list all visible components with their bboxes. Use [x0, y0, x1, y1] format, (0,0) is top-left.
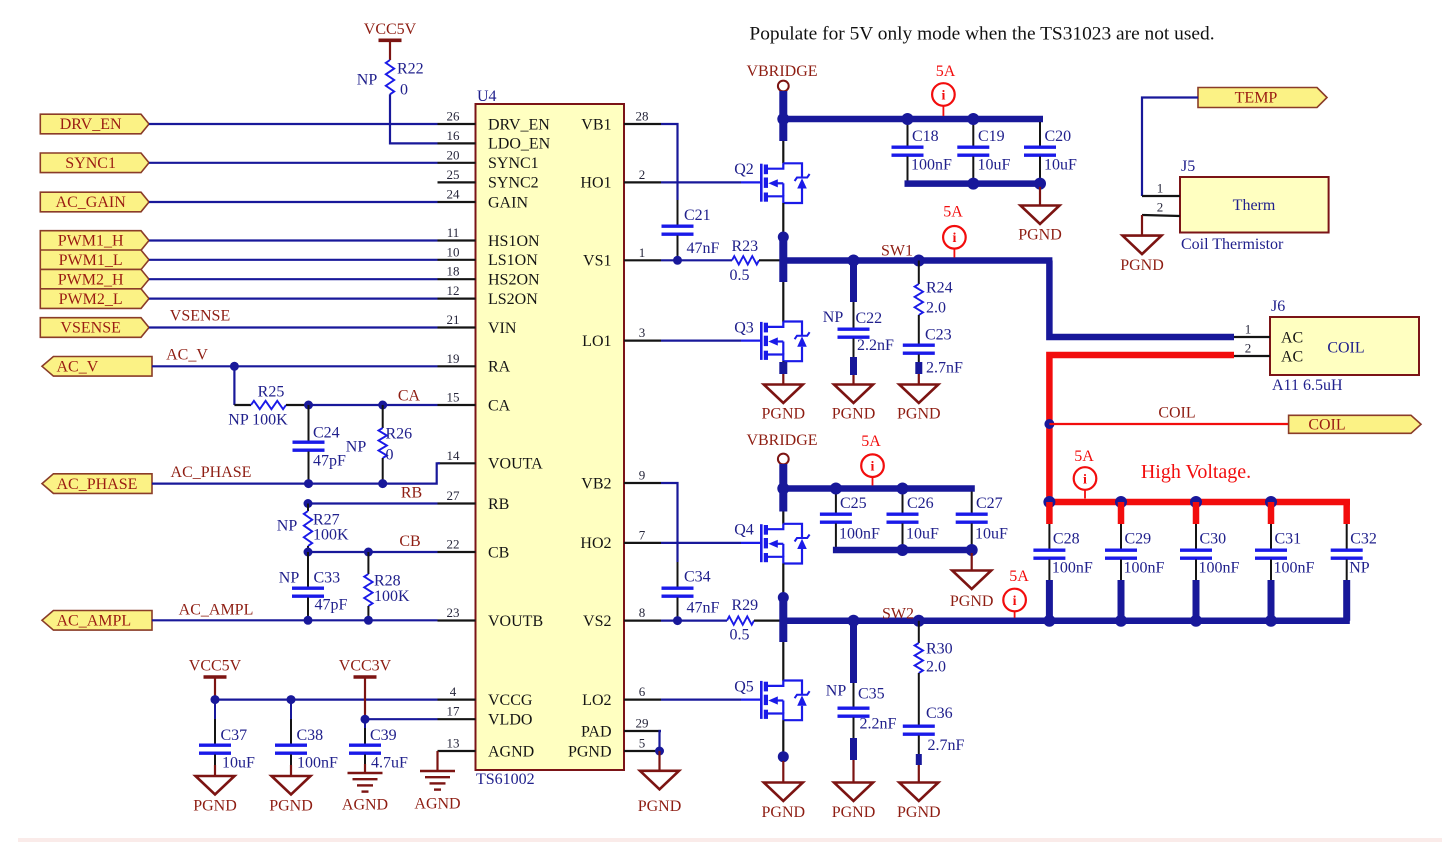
pin 19 RA (U4 left)	[438, 365, 476, 367]
pin 20 SYNC1 (U4 left)	[438, 162, 476, 164]
svg-text:TS61002: TS61002	[476, 771, 535, 788]
resistor R30	[918, 621, 920, 643]
transistor Q5	[741, 698, 761, 700]
resistor R27	[307, 504, 309, 512]
svg-text:2: 2	[1245, 341, 1252, 356]
power VCC5V (top)	[379, 38, 402, 42]
resistor R24	[918, 261, 920, 285]
wire pin 6 to Q5 gate	[661, 698, 741, 700]
svg-text:C23: C23	[925, 327, 952, 344]
pin 8 VS2 (U4 right)	[624, 619, 661, 621]
IC U4 TS61002 body	[476, 104, 625, 770]
svg-text:Therm: Therm	[1233, 197, 1276, 214]
svg-text:12: 12	[447, 283, 460, 298]
capacitor C35	[853, 683, 855, 708]
svg-text:VBRIDGE: VBRIDGE	[746, 63, 817, 80]
node AC_PHASE-R26 junction	[378, 479, 387, 488]
capacitor C39	[364, 719, 366, 728]
svg-text:HO2: HO2	[580, 535, 611, 552]
svg-text:SYNC2: SYNC2	[488, 175, 539, 192]
svg-text:Q5: Q5	[734, 678, 754, 695]
svg-text:NP: NP	[357, 72, 378, 89]
svg-text:NP: NP	[277, 518, 298, 535]
pin 17 VLDO (U4 left)	[438, 718, 476, 720]
pin 2 (J5)	[1142, 215, 1180, 216]
wire SW1 stub (thick)	[779, 237, 787, 282]
svg-text:PWM2_H: PWM2_H	[58, 271, 124, 288]
ground AGND under C39	[364, 764, 366, 773]
wire VCCG row	[215, 698, 438, 700]
transistor Q4	[741, 542, 761, 544]
ground PGND under C35	[852, 760, 854, 783]
connector J5 body	[1180, 177, 1329, 233]
pin 4 VCCG (U4 left)	[438, 698, 476, 700]
svg-text:C19: C19	[978, 128, 1005, 145]
wire pin 7 to Q4 gate	[661, 542, 741, 544]
node C25 top junction	[830, 483, 842, 495]
svg-text:GAIN: GAIN	[488, 194, 528, 211]
port PWM2_H	[40, 269, 149, 289]
pin 29 PAD (U4 right)	[624, 730, 661, 732]
node C34-VS2 junction	[673, 616, 682, 625]
svg-text:5A: 5A	[943, 204, 963, 221]
svg-text:1: 1	[1157, 181, 1164, 196]
svg-text:i: i	[871, 460, 875, 475]
wire Q4 source to SW2	[782, 564, 784, 595]
svg-text:LS2ON: LS2ON	[488, 291, 538, 308]
pin 3 LO1 (U4 right)	[624, 340, 661, 342]
wire TEMP to J5 pin 1	[1142, 98, 1198, 197]
ammeter 5A (HV rail)	[1074, 467, 1097, 490]
svg-text:2.2nF: 2.2nF	[857, 337, 894, 354]
wire COIL net (red)	[1049, 423, 1288, 425]
pin 21 VIN (U4 left)	[438, 326, 476, 328]
svg-text:13: 13	[447, 736, 460, 751]
svg-text:PGND: PGND	[950, 593, 994, 610]
wire C25-C27 bottom rail (thick)	[833, 547, 975, 554]
svg-text:CB: CB	[399, 533, 420, 550]
capacitor C30	[1193, 502, 1200, 524]
resistor R25	[234, 404, 251, 406]
svg-text:18: 18	[447, 264, 460, 279]
node R30 junction on SW2	[913, 615, 925, 627]
svg-text:17: 17	[447, 704, 461, 719]
node C38 junction	[287, 695, 296, 704]
svg-text:AC_PHASE: AC_PHASE	[57, 476, 138, 493]
svg-text:LDO_EN: LDO_EN	[488, 136, 551, 153]
wire pin 9 to C34 column	[661, 483, 678, 562]
svg-text:PGND: PGND	[897, 406, 941, 423]
power VCC5V (bottom)	[204, 675, 227, 679]
svg-text:C27: C27	[976, 495, 1003, 512]
pin 7 HO2 (U4 right)	[624, 542, 661, 544]
capacitor C21	[662, 224, 694, 227]
ground PGND under C20	[1039, 187, 1041, 206]
pin 2 HO1 (U4 right)	[624, 181, 661, 183]
svg-text:i: i	[1013, 594, 1017, 609]
svg-text:2.7nF: 2.7nF	[928, 737, 965, 754]
wire SW1 to J6 pin 1 (thick)	[1049, 261, 1234, 338]
port AC_AMPL	[42, 611, 152, 631]
svg-text:AC_AMPL: AC_AMPL	[57, 613, 132, 630]
wire VB1 rail (thick)	[780, 116, 1043, 123]
port TEMP	[1198, 88, 1327, 108]
svg-text:AC_GAIN: AC_GAIN	[56, 194, 127, 211]
node VB2 rail junction	[777, 483, 789, 495]
power VCC3V	[354, 675, 377, 679]
node C19 bottom junction	[967, 178, 979, 190]
pin 5 PGND (U4 right)	[624, 750, 661, 752]
svg-text:PGND: PGND	[897, 804, 941, 821]
wire AC_GAIN to pin 24	[149, 201, 438, 203]
svg-text:4: 4	[450, 684, 457, 699]
svg-text:AGND: AGND	[488, 743, 534, 760]
wire pin 3 to Q3 gate	[661, 340, 741, 342]
svg-text:AC_V: AC_V	[166, 347, 208, 364]
svg-text:10uF: 10uF	[906, 526, 939, 543]
wire VBRIDGE2 stub (thick)	[779, 464, 787, 512]
svg-text:U4: U4	[477, 88, 497, 105]
wire pin 2 to Q2 gate	[661, 181, 741, 183]
wire Q3 drain	[782, 282, 784, 322]
resistor R28	[367, 552, 369, 574]
node SW1 top junction	[778, 232, 789, 243]
svg-text:C21: C21	[684, 207, 711, 224]
wire PWM2_H to pin 18	[149, 278, 438, 280]
svg-text:100nF: 100nF	[911, 157, 952, 174]
capacitor C23	[918, 315, 920, 345]
svg-text:28: 28	[636, 109, 649, 124]
pin 18 HS2ON (U4 left)	[438, 278, 476, 280]
node HV junctions	[1043, 496, 1055, 508]
svg-text:5A: 5A	[1074, 448, 1094, 465]
svg-text:NP: NP	[1349, 560, 1370, 577]
svg-text:PGND: PGND	[269, 798, 313, 815]
svg-text:2.7nF: 2.7nF	[926, 360, 963, 377]
svg-text:VCCG: VCCG	[488, 692, 533, 709]
node C27 bottom junction	[966, 544, 978, 556]
port VSENSE	[40, 318, 149, 338]
svg-text:HS2ON: HS2ON	[488, 272, 540, 289]
capacitor C25	[835, 492, 837, 515]
port SYNC1	[40, 153, 149, 173]
node VBRIDGE rail junction	[777, 113, 789, 125]
svg-text:C33: C33	[314, 570, 341, 587]
pin 1 (J6)	[1234, 336, 1270, 338]
wire VB2 rail (thick)	[780, 485, 975, 492]
svg-text:0: 0	[386, 447, 394, 464]
wire VSENSE to pin 21	[149, 326, 438, 328]
svg-text:AC_AMPL: AC_AMPL	[179, 602, 254, 619]
svg-text:16: 16	[447, 128, 461, 143]
capacitor C20	[1039, 122, 1041, 147]
svg-text:4.7uF: 4.7uF	[371, 755, 408, 772]
node C29 bottom junction	[1115, 615, 1127, 627]
svg-text:26: 26	[447, 109, 461, 124]
svg-text:VOUTB: VOUTB	[488, 613, 543, 630]
capacitor C38	[290, 700, 292, 719]
svg-text:5A: 5A	[1009, 568, 1029, 585]
ammeter 5A (SW1)	[943, 226, 966, 249]
node SW2 top junction	[778, 592, 789, 603]
svg-text:SYNC1: SYNC1	[65, 155, 116, 172]
svg-text:HS1ON: HS1ON	[488, 233, 540, 250]
svg-text:47nF: 47nF	[687, 240, 720, 257]
resistor R29	[727, 616, 754, 624]
svg-text:High Voltage.: High Voltage.	[1141, 461, 1251, 483]
svg-text:Q3: Q3	[734, 319, 754, 336]
pin 1 VS1 (U4 right)	[624, 259, 661, 261]
svg-text:C22: C22	[856, 310, 883, 327]
svg-text:47pF: 47pF	[313, 453, 346, 470]
node C31 bottom junction	[1265, 615, 1277, 627]
svg-text:27: 27	[447, 488, 461, 503]
pin 15 CA (U4 left)	[438, 404, 476, 406]
svg-text:100nF: 100nF	[839, 526, 880, 543]
svg-text:RB: RB	[401, 485, 422, 502]
svg-text:CB: CB	[488, 544, 509, 561]
capacitor C22 stub (thick)	[850, 258, 857, 302]
capacitor C28	[1046, 502, 1053, 524]
wire RB row	[308, 502, 438, 504]
svg-text:2.0: 2.0	[926, 659, 946, 676]
svg-text:5: 5	[639, 736, 646, 751]
svg-text:21: 21	[447, 312, 460, 327]
capacitor C31	[1268, 502, 1275, 524]
svg-text:10uF: 10uF	[978, 157, 1011, 174]
svg-text:VS1: VS1	[583, 253, 611, 270]
svg-text:PGND: PGND	[762, 406, 806, 423]
port AC_PHASE	[42, 474, 152, 494]
svg-text:19: 19	[447, 351, 460, 366]
wire PWM2_L to pin 12	[149, 298, 438, 300]
svg-text:PGND: PGND	[568, 743, 612, 760]
svg-text:J6: J6	[1271, 298, 1285, 315]
svg-text:Q4: Q4	[734, 522, 754, 539]
svg-text:PGND: PGND	[832, 804, 876, 821]
svg-text:SW2: SW2	[882, 606, 914, 623]
svg-text:C38: C38	[297, 727, 324, 744]
svg-text:J5: J5	[1181, 158, 1195, 175]
svg-text:VCC5V: VCC5V	[364, 21, 417, 38]
capacitor C35 stub (thick)	[850, 618, 857, 683]
capacitor C29	[1118, 502, 1125, 524]
wire CB row	[308, 551, 438, 553]
svg-text:TEMP: TEMP	[1235, 90, 1278, 107]
svg-text:NP: NP	[279, 570, 300, 587]
svg-text:VIN: VIN	[488, 320, 517, 337]
svg-text:PGND: PGND	[832, 406, 876, 423]
node PAD-PGND junction	[655, 747, 664, 756]
node AC_V junction	[230, 362, 239, 371]
node C19 top junction	[967, 113, 979, 125]
svg-text:1: 1	[1245, 322, 1252, 337]
svg-text:LS1ON: LS1ON	[488, 252, 538, 269]
svg-text:100K: 100K	[374, 588, 410, 605]
svg-text:6: 6	[639, 684, 646, 699]
svg-text:DRV_EN: DRV_EN	[60, 116, 122, 133]
svg-text:NP: NP	[826, 683, 847, 700]
bottom margin strip	[18, 838, 1442, 842]
svg-text:VCC5V: VCC5V	[189, 658, 242, 675]
svg-text:R26: R26	[386, 426, 413, 443]
svg-text:2: 2	[1157, 200, 1164, 215]
svg-text:PGND: PGND	[762, 804, 806, 821]
wire Q5 source	[782, 720, 784, 752]
svg-text:100K: 100K	[313, 527, 349, 544]
svg-text:NP: NP	[346, 439, 367, 456]
svg-text:AC_PHASE: AC_PHASE	[171, 464, 252, 481]
pin 16 LDO_EN (U4 left)	[438, 142, 476, 144]
node C26 top junction	[897, 483, 909, 495]
wire Q4 drain	[782, 512, 784, 524]
resistor R23	[732, 256, 759, 264]
wire PWM1_L to pin 10	[149, 259, 438, 261]
ground PGND under Q5	[782, 761, 784, 783]
node C26 bottom junction	[897, 544, 909, 556]
pin 14 VOUTA (U4 left)	[438, 462, 476, 464]
wire CA row	[305, 404, 438, 406]
node C21-VS1 junction	[673, 256, 682, 265]
wire Q3 source stub	[782, 361, 784, 364]
pin 24 GAIN (U4 left)	[438, 201, 476, 203]
wire VLDO row	[365, 718, 438, 720]
svg-text:PGND: PGND	[1018, 227, 1062, 244]
svg-text:Q2: Q2	[734, 161, 754, 178]
svg-text:C32: C32	[1350, 531, 1377, 548]
port AC_GAIN	[40, 192, 149, 212]
node C28 bottom junction	[1043, 615, 1055, 627]
svg-text:Coil Thermistor: Coil Thermistor	[1181, 236, 1284, 253]
svg-text:C36: C36	[926, 705, 953, 722]
svg-text:5A: 5A	[936, 63, 956, 80]
svg-text:i: i	[1083, 472, 1087, 487]
ammeter 5A (SW2)	[1003, 589, 1026, 612]
svg-text:DRV_EN: DRV_EN	[488, 116, 550, 133]
pin 1 (J5)	[1142, 195, 1180, 197]
svg-text:PGND: PGND	[638, 798, 682, 815]
svg-text:RB: RB	[488, 496, 509, 513]
svg-text:23: 23	[447, 605, 460, 620]
svg-text:C24: C24	[313, 425, 340, 442]
svg-text:20: 20	[447, 147, 460, 162]
svg-text:3: 3	[639, 325, 646, 340]
capacitor C32	[1346, 524, 1348, 550]
node CA-C24 junction	[304, 401, 313, 410]
svg-text:PWM1_H: PWM1_H	[58, 233, 124, 250]
svg-text:47nF: 47nF	[687, 600, 720, 617]
pin 27 RB (U4 left)	[438, 502, 476, 504]
svg-text:100nF: 100nF	[1052, 560, 1093, 577]
svg-text:AC: AC	[1281, 329, 1303, 346]
svg-text:8: 8	[639, 605, 646, 620]
svg-text:R23: R23	[732, 238, 759, 255]
svg-text:NP: NP	[823, 309, 844, 326]
pin 6 LO2 (U4 right)	[624, 698, 661, 700]
svg-text:VB2: VB2	[581, 475, 611, 492]
node AC_AMPL-R28 junction	[364, 616, 373, 625]
pin 25 SYNC2 (U4 left)	[438, 181, 476, 183]
svg-text:AGND: AGND	[342, 797, 388, 814]
svg-text:2.0: 2.0	[926, 300, 946, 317]
svg-text:VLDO: VLDO	[488, 712, 532, 729]
connector J6 body	[1270, 317, 1419, 375]
wire C18-C20 bottom rail (thick)	[905, 180, 1044, 187]
svg-text:VOUTA: VOUTA	[488, 456, 543, 473]
resistor R26	[382, 405, 384, 428]
svg-text:10: 10	[447, 244, 460, 259]
wire PWM1_H to pin 11	[149, 239, 438, 241]
capacitor C19	[972, 122, 974, 147]
svg-text:VSENSE: VSENSE	[60, 320, 120, 337]
ground PGND under Q3	[782, 374, 784, 385]
svg-text:C34: C34	[684, 569, 711, 586]
svg-text:COIL: COIL	[1308, 417, 1345, 434]
svg-text:7: 7	[639, 527, 646, 542]
node AC_AMPL-C33 junction	[304, 616, 313, 625]
ground PGND under C37	[214, 765, 216, 776]
wire SW2 stub (thick)	[779, 598, 787, 643]
capacitor C22	[853, 302, 855, 329]
pin 28 VB1 (U4 right)	[624, 123, 661, 125]
wire AC_AMPL to pin 23 (VOUTB)	[152, 619, 438, 621]
transistor Q3	[741, 340, 761, 342]
svg-text:C39: C39	[370, 727, 397, 744]
capacitor C27	[971, 492, 973, 515]
resistor R22	[386, 60, 394, 94]
svg-text:24: 24	[447, 187, 461, 202]
node Q5 source dot	[778, 751, 789, 762]
wire pin 29 PAD to pin 5	[660, 731, 662, 751]
port PWM1_L	[40, 250, 149, 270]
ammeter 5A (VB1 rail)	[932, 83, 955, 106]
ground PGND under C22	[852, 375, 854, 385]
svg-text:100nF: 100nF	[1274, 560, 1315, 577]
svg-text:SW1: SW1	[881, 243, 913, 260]
svg-text:PGND: PGND	[1120, 257, 1164, 274]
svg-text:PWM2_L: PWM2_L	[59, 291, 123, 308]
svg-text:5A: 5A	[861, 433, 881, 450]
svg-text:PGND: PGND	[193, 798, 237, 815]
capacitor C36	[918, 673, 920, 726]
wire DRV_EN to pin 26	[149, 123, 438, 125]
wire SW1 rail (thick)	[780, 257, 1052, 264]
wire HV to J6 pin 2 (thick red)	[1049, 355, 1234, 502]
pin 13 AGND (U4 left)	[438, 750, 476, 752]
ground PGND under C38	[290, 765, 292, 776]
ground PGND at pin 5	[658, 751, 660, 771]
svg-text:NP 100K: NP 100K	[228, 412, 288, 429]
transistor Q2	[741, 181, 761, 183]
svg-text:R28: R28	[374, 573, 401, 590]
pin 26 DRV_EN (U4 left)	[438, 123, 476, 125]
capacitor C37	[214, 700, 216, 719]
svg-text:100nF: 100nF	[297, 755, 338, 772]
svg-text:22: 22	[447, 537, 460, 552]
svg-text:25: 25	[447, 167, 460, 182]
port DRV_EN	[40, 114, 149, 134]
svg-text:2.2nF: 2.2nF	[860, 716, 897, 733]
ground AGND at pin 13	[436, 751, 438, 771]
port AC_V	[42, 357, 152, 377]
node CB-R28 junction	[364, 548, 373, 557]
svg-text:2: 2	[639, 167, 646, 182]
svg-text:C28: C28	[1053, 531, 1080, 548]
svg-text:A11 6.5uH: A11 6.5uH	[1272, 377, 1343, 394]
svg-text:14: 14	[447, 448, 461, 463]
svg-text:AC: AC	[1281, 348, 1303, 365]
svg-text:AGND: AGND	[414, 796, 460, 813]
